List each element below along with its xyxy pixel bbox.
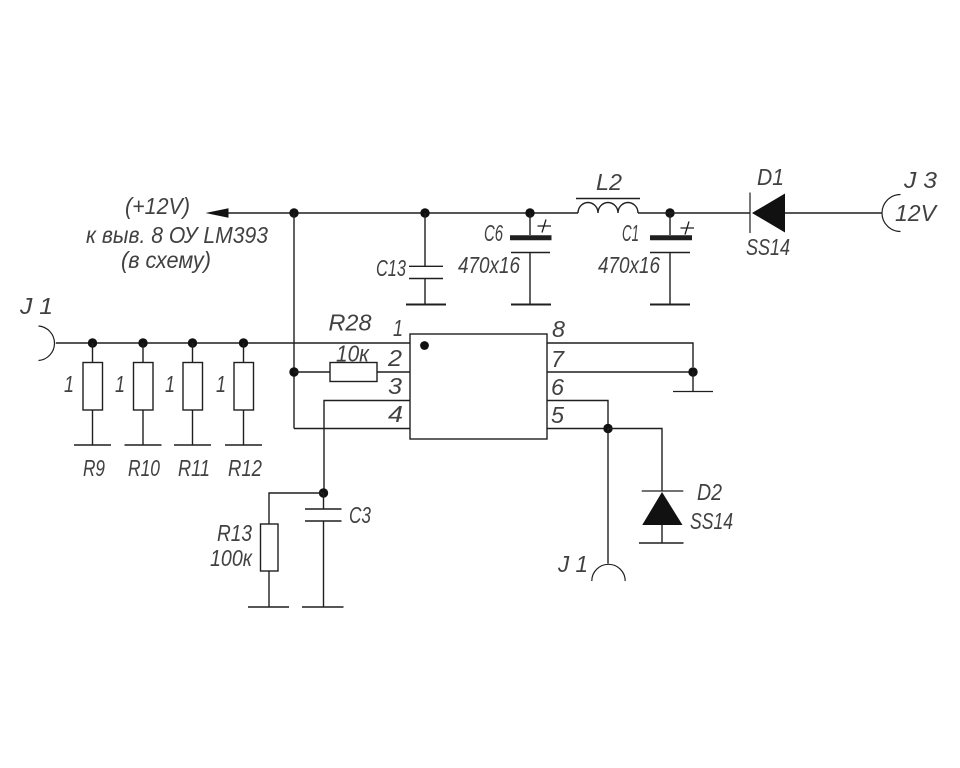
wire top +12V rail left segment [227, 212, 578, 214]
resistor R11 [183, 343, 203, 445]
svg-text:J 1: J 1 [557, 551, 588, 577]
resistor R9 [83, 343, 103, 445]
label R9 [83, 455, 105, 481]
pin number 1 [393, 315, 403, 341]
connector J1 left [39, 326, 55, 361]
wire J1 to IC pin1 [56, 342, 410, 344]
label C6 [484, 220, 503, 246]
label C3 [349, 502, 371, 528]
wire junction to ground [692, 372, 694, 391]
svg-text:470x16: 470x16 [458, 252, 520, 278]
wire pin 3 [324, 401, 410, 494]
svg-text:1: 1 [115, 371, 125, 397]
svg-text:6: 6 [551, 374, 564, 400]
wire pin 7 [547, 371, 693, 373]
label J 1 bottom [557, 551, 588, 577]
pin number 6 [551, 374, 564, 400]
svg-text:1: 1 [216, 371, 226, 397]
capacitor C3 [305, 493, 342, 607]
label SS14 D1 [746, 234, 790, 260]
wire pin 6 [547, 401, 608, 425]
capacitor C6 polarized [510, 213, 552, 304]
label 100k [210, 545, 253, 571]
ground bar R10 [125, 444, 162, 446]
node pin5/pin6 junction [603, 424, 612, 433]
ground bar C3 [302, 606, 344, 608]
label 470x16 C6 [458, 252, 520, 278]
label R11 [178, 455, 210, 481]
pin number 5 [551, 402, 564, 428]
label L2 [596, 169, 622, 195]
label R28 [329, 310, 372, 336]
label 10k [336, 341, 370, 367]
label 12V [895, 200, 939, 226]
wire pin 5 [547, 428, 608, 430]
label 1 of R12 [216, 371, 226, 397]
label R12 [228, 455, 262, 481]
ground bar C13 [406, 304, 446, 306]
wire node to J1 bottom [607, 429, 609, 564]
svg-text:C1: C1 [622, 220, 639, 246]
resistor R10 [134, 343, 154, 445]
node junction R28 left [289, 367, 298, 376]
ground bar R13 [248, 606, 289, 608]
pin number 2 [387, 345, 402, 371]
svg-text:7: 7 [551, 346, 565, 372]
svg-text:C6: C6 [484, 220, 503, 246]
plus sign C1 [681, 222, 695, 235]
wire rail L2 to D1 [638, 212, 750, 214]
node junction on rail x=294 [289, 208, 298, 217]
resistor R13 [261, 524, 279, 607]
label k vyv. 8 OU LM393 [86, 222, 268, 248]
label 470x16 C1 [598, 252, 660, 278]
svg-text:SS14: SS14 [746, 234, 790, 260]
diode D1 [750, 193, 785, 234]
node junction R9 [88, 338, 97, 347]
pin number 8 [552, 316, 565, 342]
svg-text:C3: C3 [349, 502, 371, 528]
svg-text:J 3: J 3 [903, 167, 937, 193]
label D2 [697, 479, 722, 505]
wire pin 8 [547, 343, 693, 367]
ground bar pin7 [673, 391, 713, 393]
node pin7/pin8 junction [688, 367, 697, 376]
resistor R12 [234, 343, 254, 445]
label 1 of R9 [64, 371, 74, 397]
node junction R12 [239, 338, 248, 347]
resistor R28 [294, 363, 410, 382]
ground bar R12 [225, 444, 262, 446]
svg-text:D2: D2 [697, 479, 722, 505]
svg-text:D1: D1 [757, 164, 784, 190]
node junction R10 [138, 338, 147, 347]
pin number 3 [388, 373, 402, 399]
op-amp U1 body (8-pin IC) [410, 334, 547, 439]
label C1 [622, 220, 639, 246]
svg-text:L2: L2 [596, 169, 622, 195]
label D1 [757, 164, 784, 190]
connector J1 bottom [592, 564, 625, 581]
label SS14 D2 [690, 508, 733, 534]
wire node to D2 [608, 429, 662, 492]
svg-text:1: 1 [393, 315, 403, 341]
svg-text:1: 1 [64, 371, 74, 397]
node junction on rail x=670 (C1) [665, 208, 674, 217]
label J 3 [903, 167, 937, 193]
ground bar C1 [650, 304, 690, 306]
pin number 4 [388, 401, 403, 427]
node junction on rail x=530 (C6) [525, 208, 534, 217]
svg-text:(в схему): (в схему) [121, 247, 211, 273]
ground bar R11 [174, 444, 211, 446]
svg-text:J 1: J 1 [19, 293, 53, 319]
wire node to R13 [269, 493, 324, 524]
svg-text:R28: R28 [329, 310, 372, 336]
inductor L2 [576, 199, 640, 214]
svg-text:470x16: 470x16 [598, 252, 660, 278]
wire D1 to J3 [785, 212, 882, 214]
svg-text:10к: 10к [336, 341, 370, 367]
label (v shemu) [121, 247, 211, 273]
connector J3 [882, 195, 900, 232]
capacitor C1 polarized [650, 213, 692, 304]
ground bar D2 [639, 542, 684, 544]
svg-text:12V: 12V [895, 200, 939, 226]
svg-text:C13: C13 [376, 255, 406, 281]
ground bar C6 [511, 304, 551, 306]
svg-text:R10: R10 [128, 455, 160, 481]
svg-text:к выв. 8 ОУ LM393: к выв. 8 ОУ LM393 [86, 222, 268, 248]
svg-text:R12: R12 [228, 455, 262, 481]
svg-text:SS14: SS14 [690, 508, 733, 534]
label R13 [217, 520, 252, 546]
pin 1 marker dot [420, 341, 429, 350]
svg-text:100к: 100к [210, 545, 253, 571]
diode D2 [642, 491, 684, 543]
pin number 7 [551, 346, 565, 372]
plus sign C6 [538, 220, 552, 233]
svg-text:8: 8 [552, 316, 565, 342]
label 1 of R10 [115, 371, 125, 397]
svg-text:5: 5 [551, 402, 564, 428]
ground bar R9 [74, 444, 111, 446]
label R10 [128, 455, 160, 481]
svg-text:R11: R11 [178, 455, 210, 481]
svg-text:3: 3 [388, 373, 402, 399]
node C3/R13 junction [319, 488, 328, 497]
svg-text:R13: R13 [217, 520, 252, 546]
label J 1 top left [19, 293, 53, 319]
node junction on rail x=425 (C13) [420, 208, 429, 217]
svg-text:1: 1 [165, 371, 175, 397]
label (+12V) [125, 193, 190, 219]
svg-text:4: 4 [388, 401, 403, 427]
label C13 [376, 255, 406, 281]
arrow to +12V net [206, 208, 229, 217]
svg-text:2: 2 [387, 345, 402, 371]
capacitor C13 [409, 213, 443, 304]
svg-text:(+12V): (+12V) [125, 193, 190, 219]
svg-text:R9: R9 [83, 455, 105, 481]
node junction R11 [188, 338, 197, 347]
wire rail drop x=294 to R28 node and pin4 [294, 213, 410, 429]
label 1 of R11 [165, 371, 175, 397]
